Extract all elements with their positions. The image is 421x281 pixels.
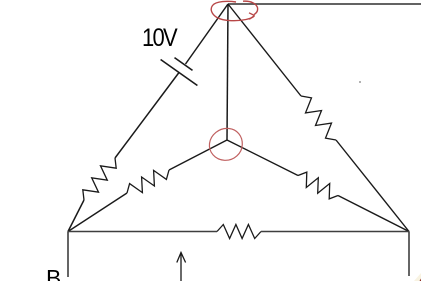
wire: battery to left resistor (115, 73, 179, 159)
resistor R-bottom (on bottom edge) (217, 225, 261, 239)
wire: center node to center-right resistor (227, 140, 298, 176)
current arrow below bottom resistor (180, 253, 182, 281)
wire: left resistor down to bottom-left vertex B (68, 200, 84, 232)
wire: center-left resistor up to center node (169, 140, 227, 170)
wire: bottom-left vertex to center-left resistor (68, 193, 127, 232)
label 10V (battery value) (142, 24, 176, 53)
battery 10V long plate (161, 60, 198, 86)
wire: vertical stub below bottom-right vertex (408, 232, 410, 277)
wire: vertical stub below bottom-left vertex B (67, 232, 69, 278)
red annotation: circled arrow around top vertex node (211, 1, 254, 20)
wire: top vertex down-right to right-side resistor (228, 4, 301, 96)
wire: bottom-left vertex to bottom resistor (68, 231, 217, 233)
wire: top vertex to battery top plate (186, 4, 229, 64)
label B (node B) (46, 265, 61, 281)
wire: vertical from top vertex down to center node (227, 4, 228, 140)
wire: center-right resistor to bottom-right vertex (338, 196, 409, 232)
resistor R-center-left (on edge bottom-left vertex to center node) (127, 170, 169, 193)
resistor R-right (on edge top vertex to bottom-right) (301, 96, 336, 140)
resistor R-center-right (on edge center node to bottom-right vertex) (298, 172, 338, 199)
battery 10V short plate (175, 58, 193, 71)
wire: top horizontal from node at top vertex to right edge (228, 3, 421, 5)
stray gray dot (359, 81, 361, 83)
wire: right resistor to bottom-right vertex (336, 140, 409, 232)
resistor R-left (on edge bottom-left vertex to top vertex) (83, 158, 116, 200)
wire: bottom resistor to bottom-right vertex (261, 231, 409, 233)
red annotation: circle around center node (209, 128, 242, 160)
faint corner smudge bottom-right (414, 273, 421, 281)
